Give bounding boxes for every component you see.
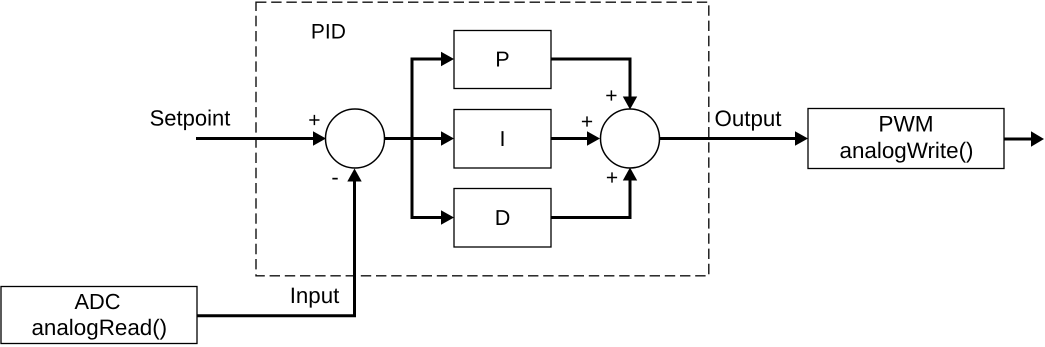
svg-text:ADC: ADC [74,289,120,314]
svg-text:+: + [308,109,320,132]
block P [454,31,551,89]
block PWM analogWrite() [808,109,1004,169]
svg-text:I: I [500,126,506,151]
summing junction 2 (PID sum) [601,109,660,168]
svg-text:analogRead(): analogRead() [31,315,167,340]
wire: branch to D block [412,216,445,219]
svg-text:analogWrite(): analogWrite() [840,138,974,163]
svg-text:P: P [495,47,509,72]
wire: I output into junction 2 [551,137,591,140]
wire: junction 2 to PWM block [659,137,799,140]
svg-text:D: D [495,205,511,230]
wire: D output up into junction 2 [551,177,630,218]
wire: junction 1 to I block (through branch node) [384,137,445,140]
wire: ADC feedback to junction 1 bottom [197,177,355,316]
svg-text:PID: PID [311,21,346,44]
block I [454,110,551,169]
svg-text:+: + [581,111,593,134]
wire: P output down into junction 2 [551,59,630,100]
PID controller boundary (dashed box) [256,2,709,276]
svg-text:PWM: PWM [878,111,933,136]
svg-text:+: + [606,167,618,190]
summing junction 1 (error) [326,109,385,168]
block D [454,189,551,248]
wire: branch to P block [412,58,445,61]
svg-text:Output: Output [715,106,783,131]
wire: branch vertical line [411,58,414,220]
svg-text:Setpoint: Setpoint [150,106,231,131]
svg-text:+: + [605,85,617,108]
wire: PWM output arrow [1004,138,1032,141]
svg-text:Input: Input [290,283,340,308]
wire: setpoint into junction 1 [196,137,316,140]
svg-text:-: - [331,165,338,190]
block ADC analogRead() [1,287,197,344]
